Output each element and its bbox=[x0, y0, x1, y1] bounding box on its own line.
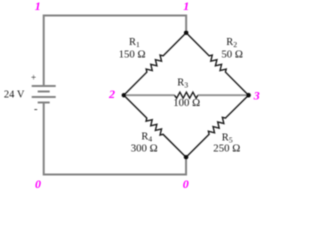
svg-text:0: 0 bbox=[35, 177, 41, 191]
svg-text:1: 1 bbox=[183, 0, 189, 13]
svg-text:0: 0 bbox=[183, 177, 189, 191]
svg-text:300 Ω: 300 Ω bbox=[131, 142, 158, 154]
svg-text:100 Ω: 100 Ω bbox=[173, 97, 200, 109]
svg-text:150 Ω: 150 Ω bbox=[119, 48, 146, 60]
svg-text:24 V: 24 V bbox=[4, 89, 25, 100]
svg-text:50 Ω: 50 Ω bbox=[221, 49, 243, 61]
svg-text:250 Ω: 250 Ω bbox=[213, 143, 240, 155]
svg-text:2: 2 bbox=[108, 87, 115, 101]
svg-text:-: - bbox=[34, 104, 38, 115]
svg-text:3: 3 bbox=[253, 88, 260, 102]
svg-text:1: 1 bbox=[35, 0, 41, 13]
svg-text:+: + bbox=[31, 72, 36, 82]
